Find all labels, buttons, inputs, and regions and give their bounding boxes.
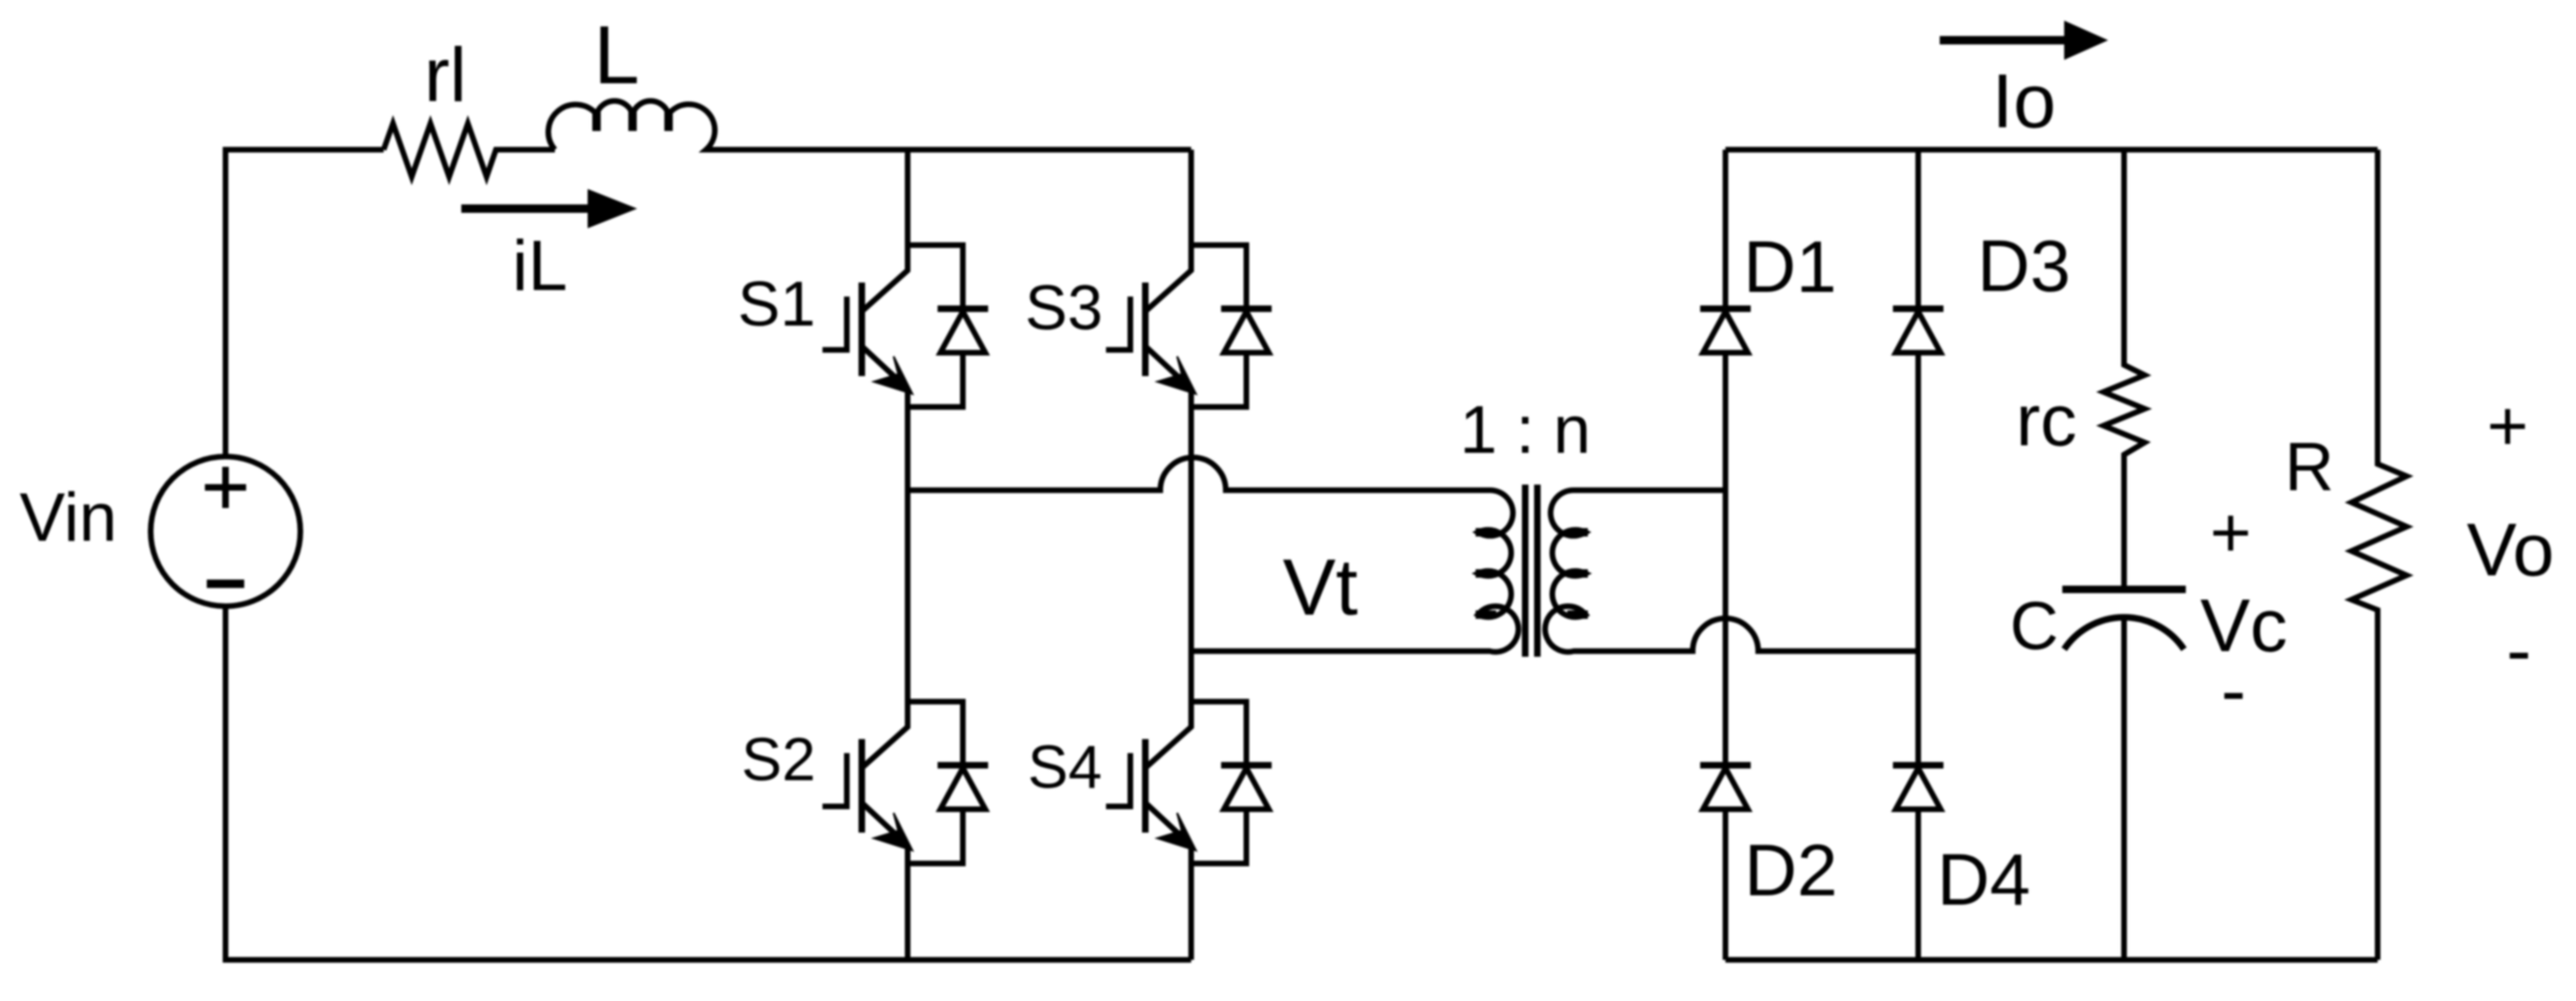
svg-text:-: - (2221, 648, 2247, 732)
svg-text:+: + (2210, 493, 2251, 573)
svg-text:S1: S1 (737, 268, 815, 340)
svg-text:D3: D3 (1977, 225, 2071, 307)
svg-text:1 : n: 1 : n (1460, 393, 1591, 468)
svg-text:D1: D1 (1743, 225, 1837, 308)
svg-text:Vo: Vo (2467, 508, 2554, 591)
svg-text:L: L (594, 8, 640, 101)
svg-text:Io: Io (1992, 59, 2056, 144)
svg-text:D2: D2 (1744, 829, 1838, 911)
svg-text:S3: S3 (1025, 272, 1102, 343)
svg-text:-: - (2507, 608, 2532, 691)
svg-text:R: R (2285, 429, 2335, 505)
svg-text:Vt: Vt (1283, 544, 1358, 632)
svg-text:rc: rc (2016, 379, 2077, 461)
svg-text:Vin: Vin (20, 480, 117, 556)
svg-text:rl: rl (424, 33, 467, 118)
svg-text:+: + (2487, 386, 2528, 466)
svg-text:C: C (2010, 589, 2059, 664)
svg-text:S2: S2 (741, 725, 816, 793)
svg-text:iL: iL (512, 226, 567, 306)
svg-text:D4: D4 (1937, 838, 2030, 921)
svg-text:S4: S4 (1027, 733, 1102, 801)
